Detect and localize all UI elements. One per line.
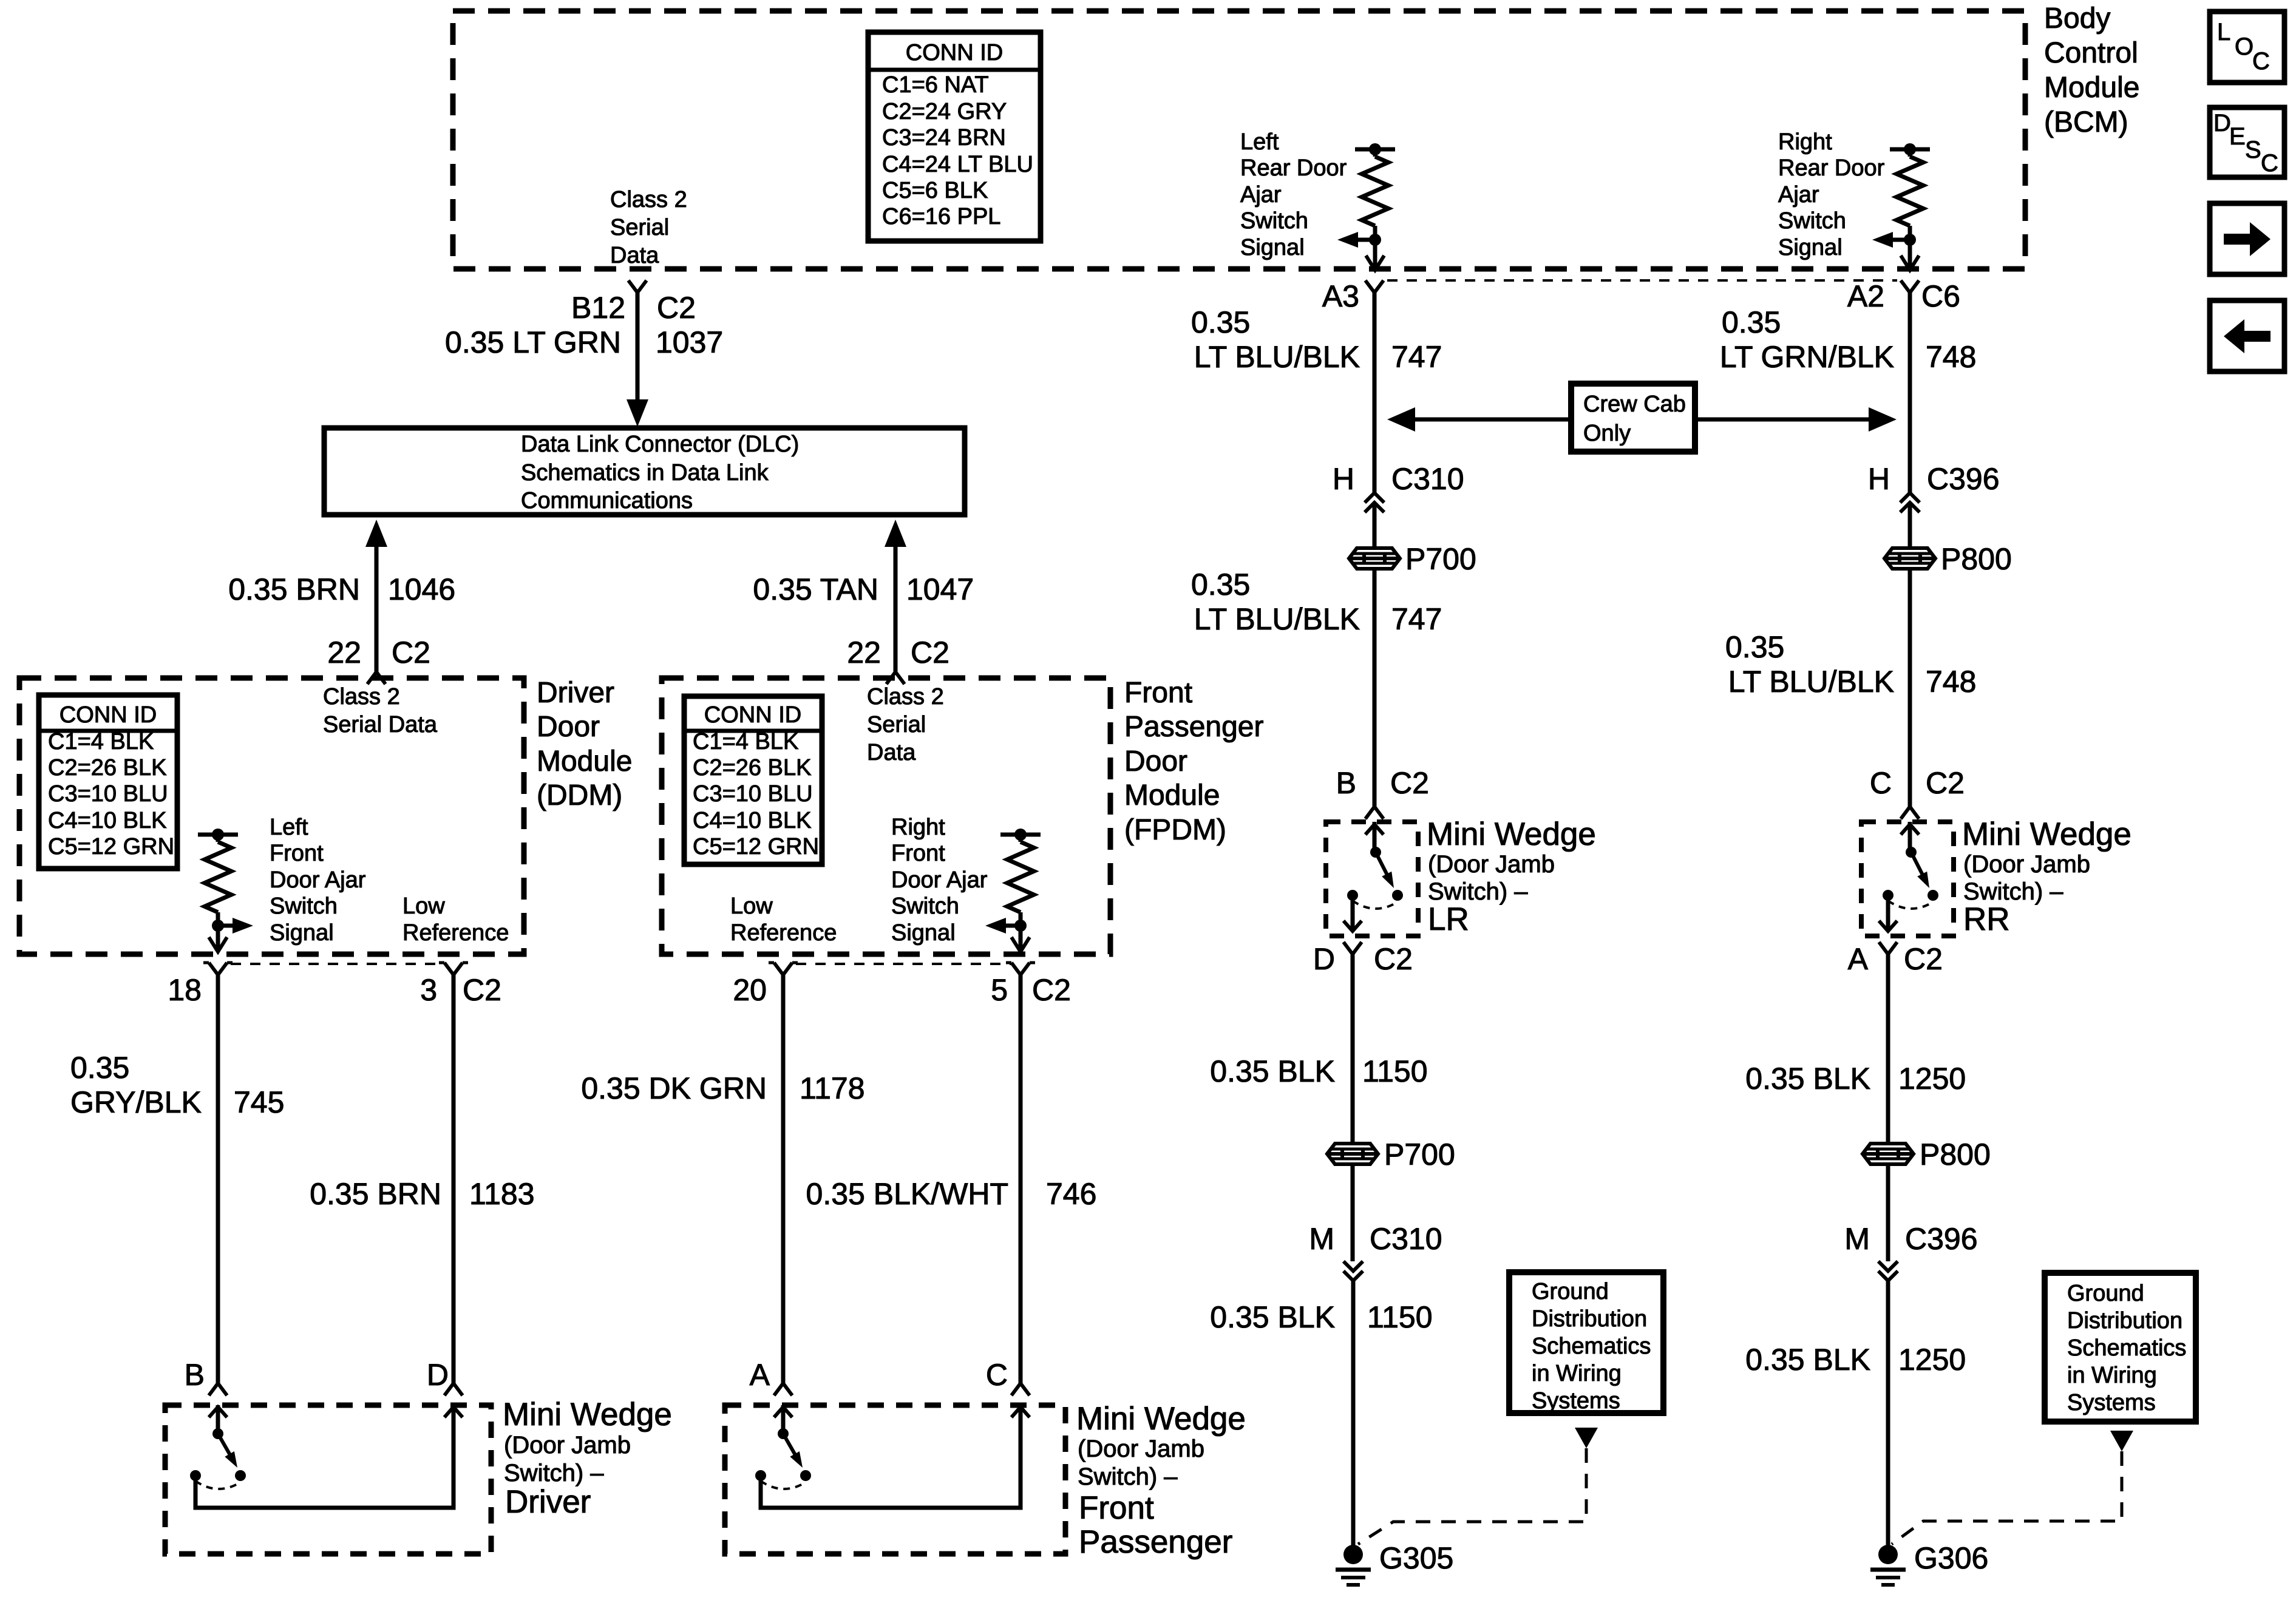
svg-text:Distribution: Distribution (2067, 1308, 2182, 1334)
label Driver Door Module (DDM) (537, 677, 632, 812)
svg-text:(Door Jamb: (Door Jamb (1963, 851, 2090, 878)
switch mini wedge RR dashed box (1861, 822, 1954, 936)
svg-text:Schematics: Schematics (2067, 1335, 2186, 1361)
svg-text:C310: C310 (1370, 1222, 1442, 1256)
icon LOC button (2210, 12, 2284, 83)
switch mini wedge driver dashed box (165, 1405, 491, 1554)
label 0.35 BLK 1150 (upper) (1210, 1054, 1427, 1088)
FPDM CONN ID table (684, 696, 822, 864)
svg-text:Module: Module (2044, 72, 2139, 104)
label Left Front Door Ajar Switch Signal (270, 815, 366, 946)
connector C396 pin M (in-line) (1844, 1222, 1977, 1281)
pin B12 C2 connector at BCM (571, 280, 696, 325)
pin 22 C2 connector (FPDM) (847, 636, 949, 684)
wire down from DDM resistor with open arrowhead (209, 926, 227, 952)
svg-text:Data: Data (610, 243, 659, 268)
svg-text:D: D (2213, 110, 2231, 137)
block Ground Distribution Schematics in Wiring Systems (right) (2045, 1273, 2196, 1422)
pin 22 C2 connector (DDM) (327, 636, 430, 684)
label 0.35 GRY/BLK 745 (70, 1051, 284, 1119)
label Class 2 Serial Data (BCM pin B12) (610, 187, 687, 268)
svg-text:C: C (2261, 150, 2278, 177)
FPDM bottom connector dashed line (796, 963, 1011, 965)
pin 5 C2 connector (FPDM) (991, 963, 1071, 1007)
dashed ground reference path to G306 (1892, 1451, 2122, 1544)
svg-text:L: L (2217, 19, 2230, 46)
label Mini Wedge (Door Jamb Switch) - Front Passenger (1076, 1401, 1246, 1560)
svg-text:Signal: Signal (270, 920, 334, 946)
svg-text:C3=10 BLU: C3=10 BLU (48, 781, 168, 807)
icon forward arrow button (2210, 203, 2284, 274)
resistor left rear door ajar switch (in BCM) (1355, 143, 1395, 246)
svg-text:A: A (750, 1358, 770, 1392)
svg-text:747: 747 (1391, 340, 1442, 374)
svg-text:C4=10 BLK: C4=10 BLK (693, 808, 811, 833)
svg-text:(Door Jamb: (Door Jamb (1078, 1436, 1204, 1462)
svg-text:C2=26 BLK: C2=26 BLK (48, 755, 166, 781)
wire + arrow left (right rear switch signal) (1872, 232, 1910, 248)
svg-text:O: O (2235, 33, 2254, 60)
wire 745 (pin 18 down to driver mini wedge) (216, 975, 220, 1383)
svg-text:A2: A2 (1847, 279, 1884, 313)
label Class 2 Serial Data (FPDM) (867, 684, 944, 765)
connector C396 pin H (in-line) (1868, 462, 2000, 512)
label Mini Wedge (Door Jamb Switch) - LR (1427, 816, 1596, 937)
svg-text:B12: B12 (571, 291, 625, 325)
wire 1250 between P800 and C396 (1886, 1164, 1890, 1261)
svg-text:LT BLU/BLK: LT BLU/BLK (1194, 602, 1360, 636)
svg-text:G306: G306 (1914, 1541, 1988, 1575)
ground reference triangle (right) (2110, 1431, 2133, 1451)
wire 1046 up arrow into DLC (365, 520, 387, 672)
svg-text:Switch: Switch (270, 893, 338, 919)
svg-text:Switch: Switch (891, 893, 959, 919)
label 0.35 BRN 1183 (310, 1177, 534, 1211)
module DDM dashed box (Driver Door Module) (19, 678, 524, 954)
svg-text:G305: G305 (1379, 1541, 1453, 1575)
svg-text:Door: Door (1124, 745, 1187, 778)
label Right Rear Door Ajar Switch Signal (1778, 129, 1885, 260)
svg-text:Data Link Connector (DLC): Data Link Connector (DLC) (521, 432, 799, 457)
svg-text:Door Ajar: Door Ajar (270, 867, 366, 893)
svg-text:P700: P700 (1384, 1137, 1455, 1171)
svg-text:A3: A3 (1322, 279, 1359, 313)
ground G306 (1870, 1541, 1988, 1585)
svg-text:C4=10 BLK: C4=10 BLK (48, 808, 166, 833)
wire 1178 (pin 20 down to FP mini wedge) (781, 975, 786, 1383)
label Right Front Door Ajar Switch Signal (891, 815, 988, 946)
ground G305 (1336, 1541, 1453, 1585)
svg-text:22: 22 (327, 636, 361, 670)
svg-text:Right: Right (891, 815, 945, 840)
svg-text:C: C (986, 1358, 1008, 1392)
svg-text:Front: Front (1124, 677, 1192, 709)
svg-text:D: D (427, 1358, 449, 1392)
pin A3 connector at BCM (1322, 279, 1384, 313)
svg-text:CONN ID: CONN ID (906, 40, 1003, 66)
svg-text:RR: RR (1963, 901, 2010, 937)
svg-text:Driver: Driver (537, 677, 614, 709)
svg-text:Body: Body (2044, 2, 2110, 35)
svg-text:(FPDM): (FPDM) (1124, 814, 1226, 846)
svg-text:Switch) –: Switch) – (504, 1460, 604, 1486)
svg-text:in Wiring: in Wiring (1532, 1361, 1622, 1386)
FP switch contacts and travel arc (755, 1470, 811, 1489)
pin 3 C2 connector (DDM) (420, 963, 501, 1007)
svg-text:Class 2: Class 2 (323, 684, 400, 710)
label 0.35 BLK/WHT 746 (806, 1177, 1097, 1211)
svg-text:(Door Jamb: (Door Jamb (1428, 851, 1555, 878)
switch mini wedge front passenger dashed box (725, 1405, 1065, 1554)
pin B connector (driver mini wedge) (185, 1358, 227, 1395)
svg-text:Low: Low (402, 893, 445, 919)
wire 748 upper segment (1908, 293, 1912, 493)
svg-text:0.35 BLK: 0.35 BLK (1210, 1300, 1335, 1334)
svg-text:LR: LR (1428, 901, 1469, 937)
wire 747 between C310 and P700 (1373, 503, 1377, 548)
svg-text:Passenger: Passenger (1079, 1524, 1232, 1560)
svg-text:Ground: Ground (1532, 1279, 1609, 1304)
pin C connector (FP mini wedge) (986, 1358, 1030, 1395)
pin B C2 connector (LR mini wedge) (1336, 766, 1429, 819)
svg-text:Front: Front (270, 841, 324, 866)
svg-text:C2=26 BLK: C2=26 BLK (693, 755, 811, 781)
svg-text:C6: C6 (1921, 279, 1960, 313)
driver switch contacts and travel arc (190, 1470, 246, 1489)
svg-text:Switch: Switch (1240, 208, 1308, 234)
svg-text:C1=4 BLK: C1=4 BLK (48, 729, 154, 754)
LR switch input wire with up arrowhead (1365, 822, 1384, 858)
svg-text:Only: Only (1583, 421, 1631, 446)
svg-text:Reference: Reference (730, 920, 837, 946)
svg-text:Reference: Reference (402, 920, 509, 946)
svg-text:A: A (1848, 942, 1869, 976)
svg-text:P700: P700 (1405, 542, 1476, 576)
svg-text:in Wiring: in Wiring (2067, 1363, 2157, 1388)
svg-text:B: B (185, 1358, 205, 1392)
svg-text:M: M (1309, 1222, 1334, 1256)
svg-text:B: B (1336, 766, 1356, 800)
icon back arrow button (2210, 300, 2284, 371)
connector C310 pin M (in-line) (1309, 1222, 1442, 1281)
label 0.35 DK GRN 1178 (581, 1071, 864, 1105)
pin 18 connector (DDM) (168, 963, 233, 1007)
svg-text:3: 3 (420, 973, 437, 1007)
label 0.35 LT GRN 1037 (445, 325, 723, 359)
svg-text:Mini Wedge: Mini Wedge (1427, 816, 1596, 852)
LR switch output wire with down arrowhead (1343, 895, 1362, 931)
svg-text:Serial: Serial (610, 215, 669, 240)
wire 1047 up arrow into DLC (885, 520, 906, 672)
label Mini Wedge (Door Jamb Switch) - RR (1962, 816, 2131, 937)
wire 748 lower segment (1908, 569, 1912, 807)
svg-text:D: D (1313, 942, 1335, 976)
wire + arrow left (right front switch signal) (985, 918, 1021, 934)
svg-text:1150: 1150 (1362, 1054, 1428, 1088)
svg-text:C: C (2252, 48, 2270, 75)
svg-text:Schematics in Data Link: Schematics in Data Link (521, 460, 769, 486)
RR switch blade (1911, 852, 1929, 888)
svg-text:Schematics: Schematics (1532, 1334, 1651, 1359)
resistor right front door ajar switch (in FPDM) (1000, 829, 1041, 932)
svg-text:Left: Left (1240, 129, 1279, 155)
svg-text:0.35 BRN: 0.35 BRN (310, 1177, 441, 1211)
label 0.35 BLK 1250 (lower) (1745, 1343, 1966, 1377)
pin D C2 connector (LR mini wedge) (1313, 942, 1413, 976)
LR switch contacts and travel arc (1347, 890, 1403, 909)
RR switch output wire with down arrowhead (1879, 895, 1897, 931)
label Class 2 Serial Data (DDM) (323, 684, 438, 737)
label Mini Wedge (Door Jamb Switch) - Driver (503, 1397, 672, 1520)
wire 1037 (Class 2 serial data) with down arrow to DLC (627, 293, 648, 427)
wire down from FPDM resistor with open arrowhead (1011, 926, 1030, 952)
block Crew Cab Only with double arrow (1387, 384, 1897, 452)
svg-text:22: 22 (847, 636, 881, 670)
svg-text:745: 745 (234, 1085, 284, 1119)
svg-text:(BCM): (BCM) (2044, 106, 2128, 138)
svg-text:0.35 TAN: 0.35 TAN (753, 572, 878, 606)
svg-text:Front: Front (891, 841, 945, 866)
icon DESC button (2210, 107, 2284, 177)
svg-text:Front: Front (1079, 1490, 1154, 1526)
svg-text:Systems: Systems (1532, 1388, 1620, 1414)
svg-text:Ajar: Ajar (1240, 182, 1282, 208)
svg-text:Data: Data (867, 740, 916, 765)
svg-text:C2: C2 (1374, 942, 1413, 976)
svg-text:Communications: Communications (521, 488, 693, 514)
label 0.35 BRN 1046 (228, 572, 455, 606)
BCM bottom connector dashed line (1387, 279, 1897, 282)
wire 1250 lower segment to ground (1886, 1281, 1890, 1545)
wire 746 (pin 5 down to FP mini wedge) (1019, 975, 1023, 1383)
wire 1250 upper segment (1886, 954, 1890, 1144)
label 0.35 LT BLU/BLK 747 (upper) (1191, 305, 1442, 374)
svg-text:Passenger: Passenger (1124, 711, 1263, 743)
svg-text:Signal: Signal (1240, 235, 1305, 260)
block Data Link Connector (DLC) (324, 428, 965, 515)
svg-text:C3=10 BLU: C3=10 BLU (693, 781, 813, 807)
label 0.35 TAN 1047 (753, 572, 974, 606)
svg-text:C396: C396 (1927, 462, 2000, 496)
svg-text:Mini Wedge: Mini Wedge (1962, 816, 2131, 852)
svg-text:C5=12 GRN: C5=12 GRN (693, 834, 819, 859)
label Front Passenger Door Module (FPDM) (1124, 677, 1263, 846)
RR switch input wire with up arrowhead (1901, 822, 1919, 858)
label Low Reference (FPDM) (730, 893, 837, 946)
svg-text:C2: C2 (1904, 942, 1943, 976)
label 0.35 LT BLU/BLK 747 (lower) (1191, 568, 1442, 636)
svg-text:Door: Door (537, 711, 600, 743)
wire down from right BCM resistor with open arrowhead (1901, 240, 1919, 270)
BCM CONN ID table (868, 32, 1041, 241)
wire 1150 lower segment to ground (1351, 1281, 1356, 1545)
svg-text:1047: 1047 (906, 572, 974, 606)
svg-text:0.35 BLK: 0.35 BLK (1745, 1343, 1870, 1377)
svg-text:C310: C310 (1391, 462, 1464, 496)
svg-text:0.35: 0.35 (1722, 305, 1781, 339)
driver switch input wire with up arrowhead (209, 1405, 227, 1439)
label 0.35 BLK 1150 (lower) (1210, 1300, 1432, 1334)
svg-text:H: H (1333, 462, 1354, 496)
svg-text:C2: C2 (911, 636, 949, 670)
svg-text:M: M (1844, 1222, 1870, 1256)
dashed ground reference path to G305 (1358, 1448, 1586, 1544)
svg-text:C5=12 GRN: C5=12 GRN (48, 834, 174, 859)
svg-text:Switch) –: Switch) – (1078, 1463, 1178, 1490)
wire down from left BCM resistor with open arrowhead (1366, 240, 1384, 270)
svg-text:Rear Door: Rear Door (1240, 155, 1347, 181)
grommet P700 (lower) (1327, 1137, 1455, 1171)
DDM bottom connector dashed line (231, 963, 444, 965)
svg-text:748: 748 (1926, 340, 1976, 374)
svg-text:Driver: Driver (505, 1484, 591, 1520)
wire + arrow left (left rear switch signal) (1337, 232, 1375, 248)
svg-text:0.35: 0.35 (1191, 568, 1250, 602)
svg-text:Mini Wedge: Mini Wedge (503, 1397, 672, 1432)
svg-text:Low: Low (730, 893, 773, 919)
resistor right rear door ajar switch (in BCM) (1890, 143, 1930, 246)
svg-text:P800: P800 (1941, 542, 2012, 576)
svg-text:Signal: Signal (891, 920, 956, 946)
svg-text:(Door Jamb: (Door Jamb (504, 1432, 631, 1459)
svg-text:20: 20 (733, 973, 767, 1007)
driver switch blade (218, 1434, 237, 1468)
grommet P800 (upper) (1884, 542, 2012, 576)
FP switch input wire with up arrowhead (774, 1405, 792, 1439)
RR switch contacts and travel arc (1883, 890, 1938, 909)
label 0.35 BLK 1250 (upper) (1745, 1062, 1966, 1096)
svg-text:0.35: 0.35 (70, 1051, 129, 1085)
svg-text:0.35 DK GRN: 0.35 DK GRN (581, 1071, 767, 1105)
pin A connector (FP mini wedge) (750, 1358, 792, 1395)
svg-text:Crew Cab: Crew Cab (1583, 392, 1686, 417)
svg-text:LT BLU/BLK: LT BLU/BLK (1728, 665, 1894, 699)
svg-text:0.35 BRN: 0.35 BRN (228, 572, 360, 606)
svg-text:Rear Door: Rear Door (1778, 155, 1885, 181)
label Low Reference (DDM) (402, 893, 509, 946)
svg-text:E: E (2229, 123, 2246, 150)
svg-text:LT GRN/BLK: LT GRN/BLK (1720, 340, 1894, 374)
wire 747 upper segment (1373, 293, 1377, 493)
svg-text:Module: Module (1124, 779, 1220, 812)
svg-text:Mini Wedge: Mini Wedge (1076, 1401, 1246, 1437)
svg-text:C3=24 BRN: C3=24 BRN (882, 125, 1006, 151)
svg-text:5: 5 (991, 973, 1008, 1007)
svg-text:Signal: Signal (1778, 235, 1843, 260)
svg-text:C2: C2 (392, 636, 430, 670)
pin A C2 connector (RR mini wedge) (1848, 942, 1943, 976)
driver switch output wire to pin D (195, 1405, 463, 1508)
svg-text:0.35: 0.35 (1191, 305, 1250, 339)
svg-text:746: 746 (1046, 1177, 1096, 1211)
svg-text:Distribution: Distribution (1532, 1306, 1647, 1332)
svg-text:1250: 1250 (1898, 1062, 1966, 1096)
svg-text:748: 748 (1926, 665, 1976, 699)
svg-text:18: 18 (168, 973, 202, 1007)
wire 1150 upper segment (1351, 954, 1355, 1144)
svg-text:C396: C396 (1905, 1222, 1978, 1256)
LR switch blade (1376, 852, 1394, 888)
label 0.35 LT BLU/BLK 748 (lower) (1725, 630, 1976, 699)
label Body Control Module (BCM) (2044, 2, 2139, 138)
switch mini wedge LR dashed box (1326, 822, 1418, 936)
svg-text:C5=6 BLK: C5=6 BLK (882, 178, 988, 203)
svg-text:H: H (1868, 462, 1890, 496)
svg-text:LT BLU/BLK: LT BLU/BLK (1194, 340, 1360, 374)
ground reference triangle (left) (1575, 1428, 1598, 1448)
svg-text:C2: C2 (1926, 766, 1965, 800)
pin C C2 connector (RR mini wedge) (1870, 766, 1965, 819)
grommet P800 (lower) (1863, 1137, 1991, 1171)
wire + arrow right (left front switch signal) (218, 918, 253, 934)
DDM CONN ID table (39, 695, 177, 869)
svg-text:Ground: Ground (2067, 1281, 2144, 1306)
svg-text:Ajar: Ajar (1778, 182, 1819, 208)
pin A2 C6 connector at BCM (1847, 279, 1960, 313)
svg-text:Serial Data: Serial Data (323, 712, 438, 737)
svg-text:C2: C2 (657, 291, 696, 325)
svg-text:GRY/BLK: GRY/BLK (70, 1085, 202, 1119)
resistor left front door ajar switch (in DDM) (198, 829, 238, 932)
module FPDM dashed box (Front Passenger Door Module) (662, 678, 1110, 954)
svg-text:1037: 1037 (656, 325, 723, 359)
svg-text:C: C (1870, 766, 1892, 800)
svg-text:C1=6 NAT: C1=6 NAT (882, 72, 989, 98)
FP switch output wire to pin C (761, 1405, 1030, 1508)
svg-text:1178: 1178 (800, 1071, 865, 1105)
svg-text:Serial: Serial (867, 712, 926, 737)
svg-text:C2: C2 (463, 973, 501, 1007)
svg-text:Left: Left (270, 815, 308, 840)
svg-text:Switch: Switch (1778, 208, 1846, 234)
svg-text:1250: 1250 (1898, 1343, 1966, 1377)
svg-text:0.35 BLK/WHT: 0.35 BLK/WHT (806, 1177, 1008, 1211)
svg-text:Class 2: Class 2 (610, 187, 687, 212)
svg-text:C4=24 LT BLU: C4=24 LT BLU (882, 152, 1033, 177)
svg-text:Control: Control (2044, 37, 2138, 69)
svg-text:Right: Right (1778, 129, 1832, 155)
pin D connector (driver mini wedge) (427, 1358, 463, 1395)
svg-text:C6=16 PPL: C6=16 PPL (882, 204, 1000, 229)
svg-text:747: 747 (1391, 602, 1442, 636)
svg-text:CONN ID: CONN ID (704, 702, 801, 728)
svg-text:(DDM): (DDM) (537, 779, 622, 812)
svg-text:CONN ID: CONN ID (59, 702, 157, 728)
grommet P700 (upper) (1349, 542, 1476, 576)
wire 747 lower segment (1373, 569, 1377, 807)
svg-text:0.35 LT GRN: 0.35 LT GRN (445, 325, 621, 359)
svg-text:1183: 1183 (469, 1177, 535, 1211)
svg-text:Door Ajar: Door Ajar (891, 867, 988, 893)
svg-text:C1=4 BLK: C1=4 BLK (693, 729, 798, 754)
svg-text:S: S (2245, 137, 2261, 163)
wire 1150 between P700 and C310 (1351, 1164, 1355, 1261)
pin 20 connector (FPDM) (733, 963, 798, 1007)
svg-text:1046: 1046 (388, 572, 455, 606)
FP switch blade (783, 1434, 803, 1468)
label Left Rear Door Ajar Switch Signal (1240, 129, 1347, 260)
connector C310 pin H (in-line) (1333, 462, 1464, 512)
svg-text:0.35 BLK: 0.35 BLK (1210, 1054, 1335, 1088)
label 0.35 LT GRN/BLK 748 (upper) (1720, 305, 1977, 374)
svg-text:C2: C2 (1390, 766, 1429, 800)
wire 748 between C396 and P800 (1908, 503, 1912, 548)
svg-text:Module: Module (537, 745, 632, 778)
wire 1183 (pin 3 down to driver mini wedge) (452, 975, 456, 1383)
block Ground Distribution Schematics in Wiring Systems (left) (1509, 1272, 1663, 1414)
module BCM dashed box (Body Control Module) (453, 11, 2025, 269)
svg-text:P800: P800 (1920, 1137, 1991, 1171)
